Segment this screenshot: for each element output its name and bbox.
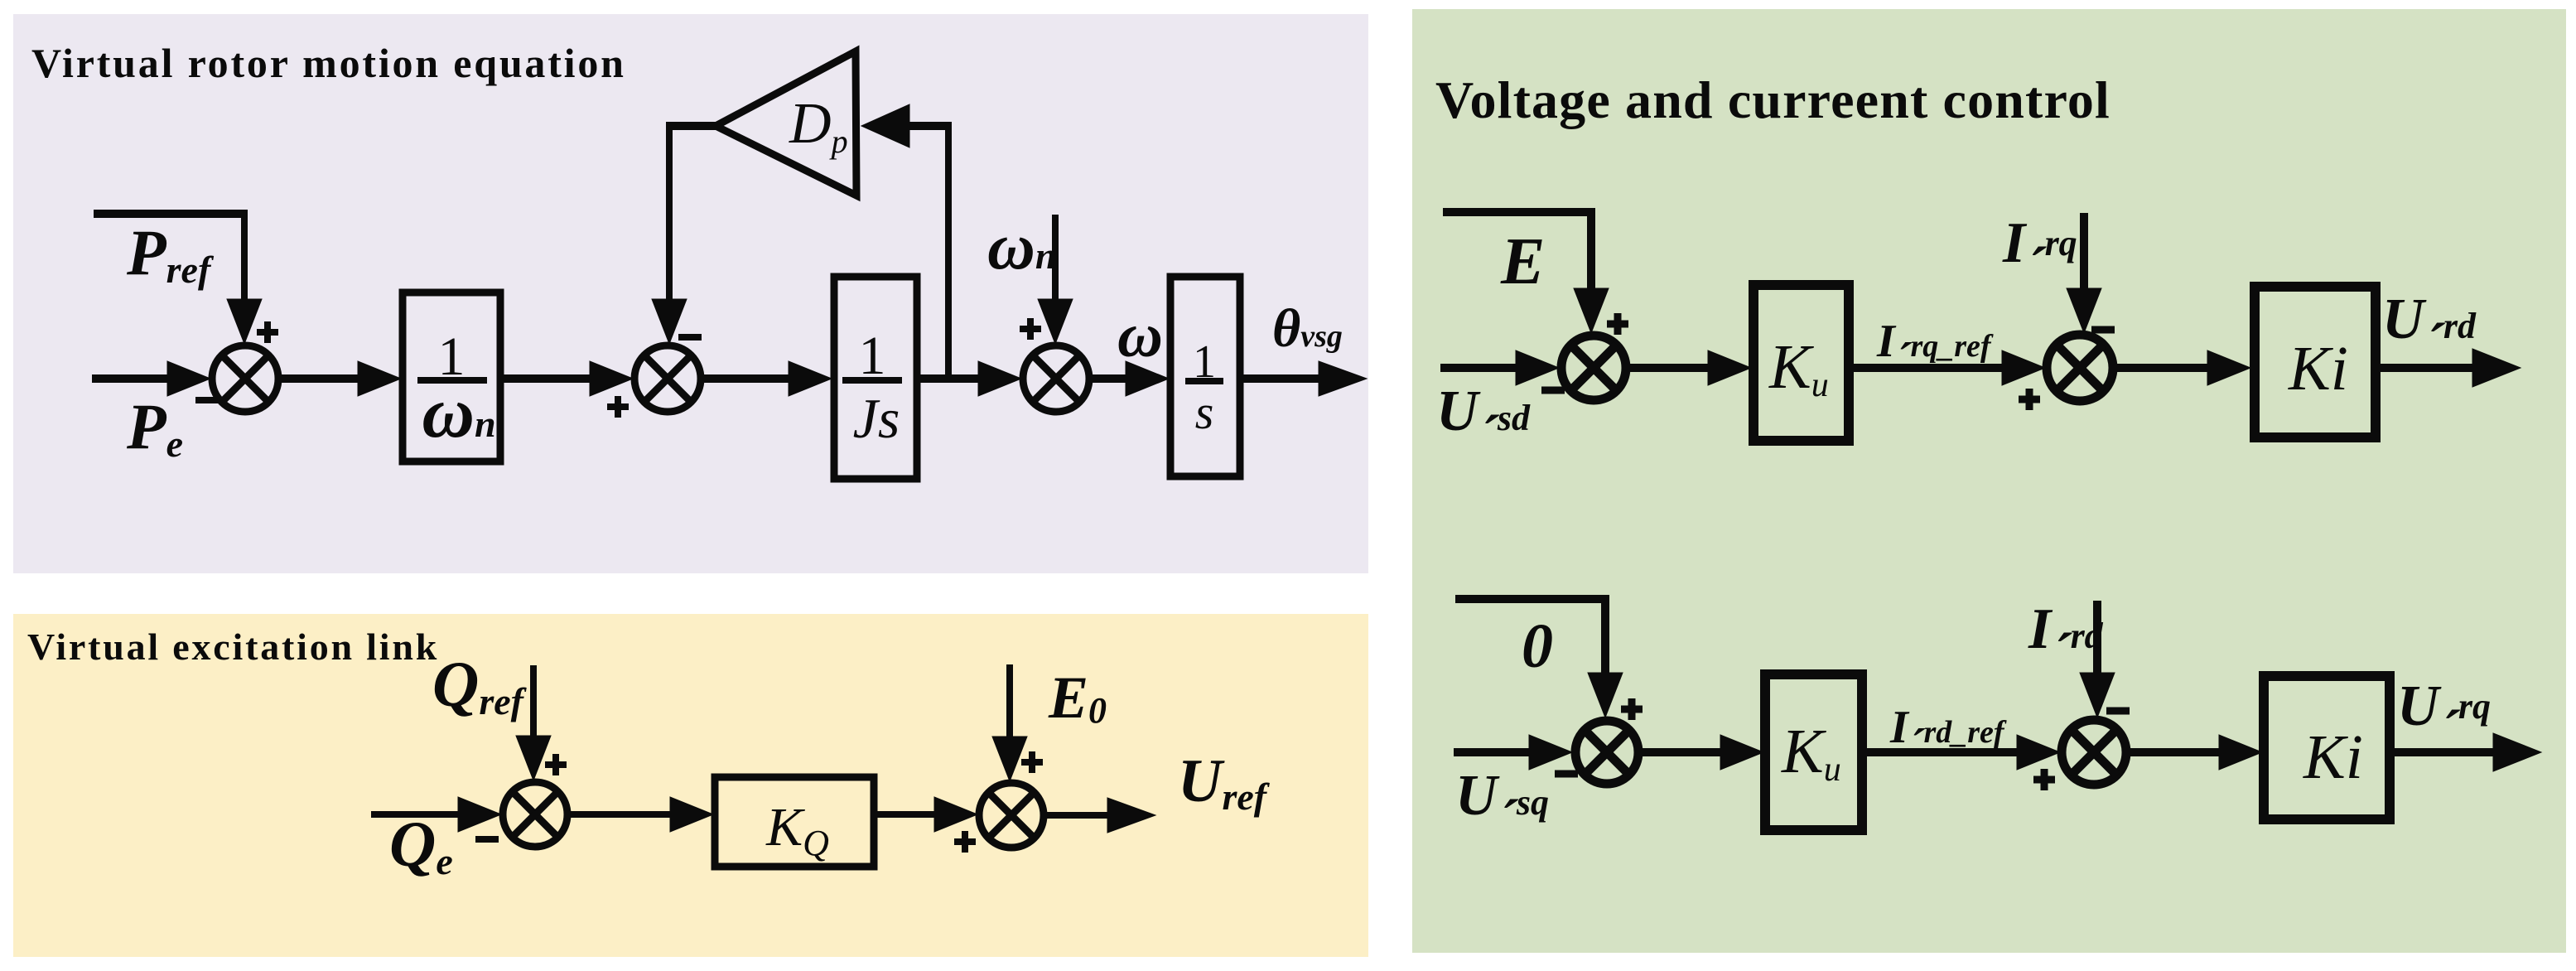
svg-text:E: E <box>1500 225 1545 298</box>
svg-text:0: 0 <box>1522 611 1553 681</box>
svg-text:Ki: Ki <box>2288 334 2348 403</box>
svg-text:Js: Js <box>853 387 900 450</box>
svg-text:Virtual rotor motion equation: Virtual rotor motion equation <box>31 40 626 86</box>
svg-text:ω: ω <box>1117 301 1163 370</box>
svg-text:Ki: Ki <box>2303 722 2363 792</box>
svg-text:s: s <box>1195 385 1214 439</box>
svg-text:Virtual excitation link: Virtual excitation link <box>27 626 439 668</box>
svg-text:Voltage and curreent control: Voltage and curreent control <box>1435 70 2110 129</box>
